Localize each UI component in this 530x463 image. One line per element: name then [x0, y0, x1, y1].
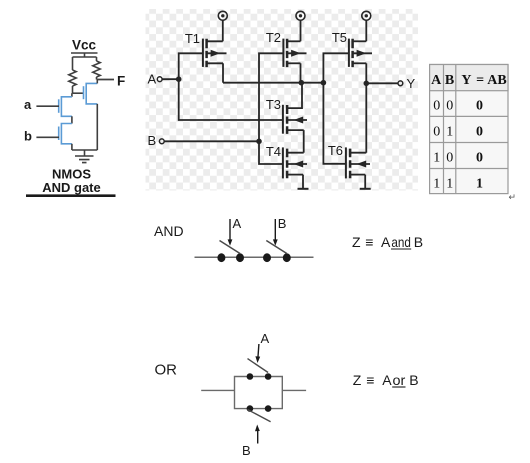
wire T2 drain down to NAND node [300, 63, 302, 82]
arrow input B [274, 219, 276, 243]
svg-text:Y: Y [461, 73, 471, 88]
wire Y vertical [365, 83, 367, 152]
svg-text:0: 0 [476, 151, 483, 166]
ground rail [72, 149, 97, 151]
contact dot 3 [263, 253, 271, 262]
wire gate a [36, 105, 59, 107]
truth table Y = AB [430, 65, 516, 203]
contact dot 1 [217, 253, 225, 262]
svg-text:=: = [476, 73, 484, 88]
wire P2 to T2 source [300, 21, 302, 42]
arrow input A [229, 219, 231, 243]
transistor T1 [185, 31, 227, 67]
contact dot 2 [236, 253, 244, 262]
svg-text:0: 0 [446, 99, 453, 114]
svg-text:A: A [431, 73, 442, 88]
arrow input B [257, 428, 259, 444]
wire OR left lead [201, 389, 234, 391]
svg-text:0: 0 [433, 125, 440, 140]
node X wire to inverter gate [73, 92, 84, 94]
switch lever A [220, 241, 241, 254]
transistor Qf gate bar (inverter) [83, 86, 85, 99]
svg-text:Vcc: Vcc [72, 38, 97, 53]
svg-text:T3: T3 [266, 97, 281, 112]
svg-text:and: and [391, 234, 411, 250]
wire Qf drain to F node [96, 80, 98, 84]
transistor T6 [328, 143, 370, 178]
svg-text:B: B [242, 443, 251, 458]
svg-text:T2: T2 [266, 30, 281, 45]
contact dot bottom-right [265, 405, 272, 412]
transistor Qa channel [61, 97, 72, 117]
NAND output node wire [223, 82, 323, 84]
node inverter-input junction [321, 80, 327, 86]
svg-text:0: 0 [446, 151, 453, 166]
wire A junction down to T3 gate [179, 79, 283, 120]
transistor T5 [332, 30, 372, 67]
svg-text:Z: Z [353, 372, 362, 388]
contact dot bottom-left [247, 405, 254, 412]
switch lever B [266, 241, 287, 254]
equation Z = A and B [352, 234, 423, 250]
svg-text:or: or [393, 372, 406, 388]
svg-text:T5: T5 [332, 30, 347, 45]
resistor R1 (left) [69, 70, 76, 86]
wire NAND node up to T5 gate [323, 53, 349, 82]
wire T3 drain down to T4 source [303, 130, 305, 153]
svg-text:1: 1 [446, 125, 453, 140]
wire left branch [72, 57, 74, 70]
svg-text:0: 0 [433, 99, 440, 114]
ground G2 [360, 188, 371, 190]
transistor T2 [266, 30, 307, 67]
svg-text:B: B [445, 73, 454, 88]
svg-text:Y: Y [407, 76, 416, 91]
svg-text:B: B [148, 133, 157, 148]
svg-text:A: A [148, 72, 157, 87]
switch lever B (bottom) [248, 410, 271, 422]
AND switch diagram row [154, 216, 423, 262]
wire Qb source to ground rail [71, 144, 73, 150]
wire NAND node down to T6 gate [323, 83, 346, 164]
wire drain of Qa up to node X [71, 93, 73, 97]
wire OR right lead [282, 389, 306, 391]
wire P3 to T5 source [365, 21, 367, 42]
contact dot 4 [283, 253, 291, 262]
wire T3 source up to NAND node [287, 83, 302, 108]
svg-text:T6: T6 [328, 143, 343, 158]
equation Z = A or B [353, 372, 419, 388]
wire Y output [366, 82, 398, 84]
wire Qf source down [96, 104, 98, 150]
CMOS AND schematic [148, 11, 416, 189]
svg-text:≡: ≡ [366, 372, 374, 388]
wire B to junction [164, 140, 259, 142]
contact dot top-right [265, 373, 272, 380]
node B junction [256, 139, 262, 145]
svg-text:B: B [409, 372, 418, 388]
node T2-drain junction [299, 80, 305, 86]
power terminal P3 [362, 11, 371, 20]
transistor Qb gate bar [58, 127, 60, 141]
checkerboard background of CMOS schematic [146, 9, 419, 191]
Vcc rail [71, 53, 98, 57]
svg-text:1: 1 [446, 177, 453, 192]
transistor T3 [266, 97, 307, 134]
wire gate b [36, 136, 59, 138]
svg-text:1: 1 [433, 177, 440, 192]
svg-text:A: A [381, 234, 391, 250]
wire Qa source to Qb drain [71, 116, 73, 123]
svg-text:1: 1 [433, 151, 440, 166]
svg-text:OR: OR [155, 362, 178, 379]
svg-text:A: A [382, 372, 392, 388]
svg-text:≡: ≡ [365, 234, 373, 250]
arrow input A [258, 344, 259, 360]
resistor R2 (right) [93, 61, 100, 77]
node Y junction [364, 81, 370, 87]
wire right branch [96, 57, 98, 61]
wire T1 drain down to NAND node [222, 63, 224, 82]
svg-text:B: B [414, 234, 423, 250]
svg-text:AND gate: AND gate [42, 180, 101, 195]
wire F output [97, 79, 115, 81]
svg-text:Z: Z [352, 234, 361, 250]
wire AND chain [195, 256, 314, 258]
wire R2 to F node [96, 77, 98, 80]
wire B junction up to T2 gate [259, 53, 283, 141]
transistor Qa gate bar [58, 99, 60, 113]
OR switch diagram row [155, 331, 419, 458]
svg-text:A: A [261, 331, 270, 346]
svg-text:↵: ↵ [509, 192, 517, 202]
svg-text:AB: AB [487, 73, 506, 88]
svg-text:T1: T1 [185, 31, 200, 46]
svg-text:AND: AND [154, 223, 184, 239]
wire A to junction [162, 78, 179, 80]
svg-text:T4: T4 [266, 144, 281, 159]
wire B junction down to T4 gate [259, 141, 283, 164]
transistor T4 [266, 144, 307, 178]
svg-text:b: b [24, 129, 32, 144]
wire R1 to node X [72, 86, 74, 93]
wire P1 to T1 source [222, 21, 224, 42]
NMOS AND gate figure (left) [24, 38, 125, 196]
svg-text:0: 0 [476, 99, 483, 114]
power terminal P2 [296, 11, 305, 20]
svg-text:F: F [117, 74, 125, 89]
output Y terminal [398, 81, 403, 86]
ground G1 [298, 188, 309, 190]
node A junction [176, 76, 182, 82]
transistor Qb channel [61, 124, 72, 144]
contact dot top-left [247, 373, 254, 380]
transistor Qf channel (inverter) [86, 83, 97, 104]
power terminal P1 [218, 11, 227, 20]
svg-text:a: a [24, 97, 32, 112]
caption underline [26, 194, 116, 197]
parallel box [235, 377, 283, 409]
svg-text:1: 1 [476, 177, 483, 192]
svg-text:B: B [278, 216, 287, 231]
wire T6 drain to ground [364, 175, 366, 189]
svg-text:A: A [233, 216, 242, 231]
wire T4 drain to ground [302, 175, 304, 189]
wire A junction up to T1 gate [179, 53, 203, 79]
switch lever A (top) [248, 359, 269, 373]
svg-text:0: 0 [476, 125, 483, 140]
ground symbol [75, 150, 94, 163]
wire T5 drain down to Y node [365, 63, 367, 83]
